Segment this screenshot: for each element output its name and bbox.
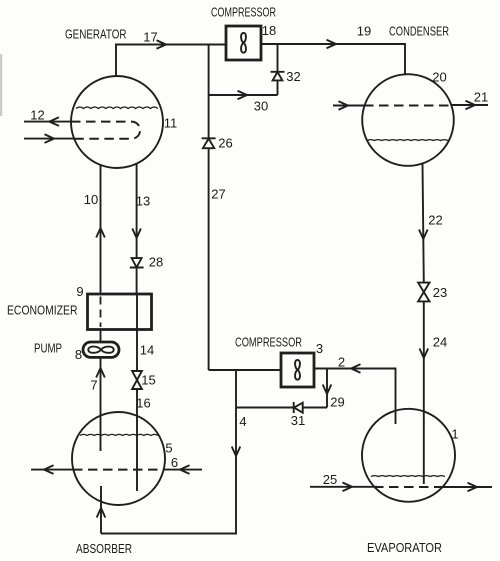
arrow right on line 25 xyxy=(343,483,353,492)
economizer left pass (dashed) xyxy=(100,297,102,328)
condenser liquid level xyxy=(367,139,448,142)
svg-text:23: 23 xyxy=(433,285,447,300)
wire line 14 xyxy=(136,330,138,372)
arrow right chilled out xyxy=(468,483,478,492)
arrow left on line 2 xyxy=(351,364,361,373)
compressor U18 box xyxy=(226,26,261,60)
compressor U18 fan blades xyxy=(241,33,246,53)
chilled medium inlet line 25 xyxy=(310,486,378,488)
arrow right on line 19 xyxy=(327,40,337,49)
arrow down on line 24 xyxy=(420,349,429,359)
wire line 22 xyxy=(423,164,424,283)
condenser vessel 20 xyxy=(362,74,454,166)
svg-text:COMPRESSOR: COMPRESSOR xyxy=(235,335,302,350)
svg-text:PUMP: PUMP xyxy=(34,341,62,356)
svg-text:14: 14 xyxy=(140,343,154,358)
svg-text:30: 30 xyxy=(254,99,268,114)
coolant inlet line xyxy=(333,105,365,107)
svg-text:3: 3 xyxy=(316,341,323,356)
svg-text:16: 16 xyxy=(136,396,150,411)
valve 26 (check valve) xyxy=(202,138,216,148)
svg-text:8: 8 xyxy=(75,347,82,362)
arrow down on line 22 xyxy=(419,230,428,240)
svg-text:ABSORBER: ABSORBER xyxy=(76,541,132,556)
wire line 30 xyxy=(209,94,278,96)
coolant outlet line 6 xyxy=(31,469,74,471)
wire line 29 horizontal xyxy=(236,407,327,409)
wire line 4 xyxy=(101,370,236,534)
arrow right coolant in xyxy=(339,101,349,110)
svg-text:ECONOMIZER: ECONOMIZER xyxy=(7,303,78,318)
heating medium inlet line xyxy=(24,138,74,140)
svg-text:17: 17 xyxy=(143,30,157,45)
svg-text:4: 4 xyxy=(239,414,246,429)
svg-text:10: 10 xyxy=(84,192,98,207)
wire line 7 xyxy=(100,357,102,451)
svg-text:22: 22 xyxy=(428,213,442,228)
svg-text:25: 25 xyxy=(323,472,337,487)
check valve 31 xyxy=(294,402,303,413)
compressor U3 box xyxy=(281,353,314,387)
svg-text:9: 9 xyxy=(76,284,83,299)
svg-text:27: 27 xyxy=(211,187,225,202)
arrow left coolant in xyxy=(180,465,190,474)
svg-text:EVAPORATOR: EVAPORATOR xyxy=(367,540,442,555)
svg-text:24: 24 xyxy=(433,335,447,350)
evaporator chilled tube (dashed) xyxy=(374,486,443,488)
svg-text:19: 19 xyxy=(357,24,371,39)
coolant outlet line 21 xyxy=(451,104,488,106)
generator heating coil (dashed U-tube) xyxy=(71,122,140,139)
expansion valve 28 xyxy=(130,258,144,267)
svg-text:31: 31 xyxy=(291,413,305,428)
expansion valve 15 xyxy=(132,371,142,389)
generator vessel 11 xyxy=(71,76,163,168)
pump 8 body xyxy=(83,342,119,357)
bypass riser to valve 32 xyxy=(277,45,279,96)
arrow right on line 30 xyxy=(238,91,248,100)
svg-text:5: 5 xyxy=(165,441,172,456)
coolant inlet line xyxy=(164,469,202,471)
valve 32 (check valve) xyxy=(271,72,285,81)
bypass drop line 29 xyxy=(326,369,328,408)
wire line 17 xyxy=(115,44,226,46)
arrow left coolant out xyxy=(44,465,54,474)
arrow left on line 12 xyxy=(49,117,59,126)
arrow right coolant out xyxy=(466,101,476,110)
absorber liquid level xyxy=(80,434,158,435)
svg-text:13: 13 xyxy=(136,194,150,209)
wire line 24 xyxy=(423,301,425,484)
wire line 27 vertical xyxy=(208,45,210,371)
arrow up absorber return xyxy=(97,508,106,518)
arrow right on line 17 xyxy=(157,40,167,49)
expansion valve 23 xyxy=(418,283,429,302)
svg-text:18: 18 xyxy=(262,23,276,38)
arrow right on heating inlet xyxy=(45,134,55,143)
svg-text:CONDENSER: CONDENSER xyxy=(389,24,449,39)
svg-text:11: 11 xyxy=(164,116,178,131)
svg-text:2: 2 xyxy=(338,355,345,370)
arrow down on line 13 xyxy=(132,229,141,239)
generator liquid level xyxy=(76,107,158,109)
arrow down on line 29 xyxy=(323,385,332,395)
arrow up on line 10 xyxy=(96,228,105,238)
svg-text:GENERATOR: GENERATOR xyxy=(65,27,127,42)
evaporator vessel 1 xyxy=(362,409,455,502)
svg-text:28: 28 xyxy=(149,255,163,270)
svg-text:21: 21 xyxy=(474,90,488,105)
condenser cooling tube (dashed) xyxy=(364,105,452,107)
svg-text:32: 32 xyxy=(286,69,300,84)
compressor U3 suction line xyxy=(209,369,281,371)
svg-text:29: 29 xyxy=(330,395,344,410)
chilled medium outlet line xyxy=(437,486,492,488)
svg-text:26: 26 xyxy=(218,136,232,151)
svg-text:15: 15 xyxy=(141,373,155,388)
evaporator liquid level xyxy=(371,475,445,478)
wire line 13 xyxy=(136,164,138,295)
economizer box 9 xyxy=(88,294,152,330)
svg-text:COMPRESSOR: COMPRESSOR xyxy=(211,5,276,20)
arrow down on line 4 xyxy=(232,447,241,457)
wire line 19 xyxy=(261,44,405,74)
wire line 16 xyxy=(136,389,138,491)
svg-text:7: 7 xyxy=(90,378,97,393)
wire pump suction xyxy=(100,330,102,343)
generator top riser xyxy=(115,45,117,77)
arrow up on line 7 xyxy=(96,368,105,378)
svg-text:1: 1 xyxy=(451,427,458,442)
pump 8 impeller (infinity) xyxy=(88,347,113,353)
absorber vessel 5 xyxy=(72,412,165,505)
evaporator vapor riser line 2 xyxy=(314,369,396,425)
svg-text:20: 20 xyxy=(432,70,446,85)
svg-text:6: 6 xyxy=(171,455,178,470)
heating medium outlet line 12 xyxy=(24,121,71,123)
absorber bottom return riser xyxy=(100,486,102,534)
scan artifact: faint streak at left edge xyxy=(0,54,2,116)
svg-text:12: 12 xyxy=(30,108,44,123)
wire line 10 xyxy=(100,165,102,294)
economizer right pass xyxy=(136,294,138,330)
absorber cooling tube (dashed) xyxy=(73,469,164,471)
compressor U3 fan blades xyxy=(295,360,300,380)
